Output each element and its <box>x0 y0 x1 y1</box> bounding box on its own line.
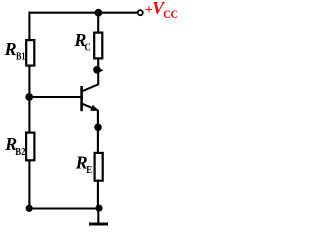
svg-text:R: R <box>4 39 17 59</box>
wire base lead horizontal <box>29 96 81 98</box>
ground <box>89 223 108 226</box>
node collector junction <box>93 66 104 74</box>
wire top rail <box>29 12 138 14</box>
wire emitter lead vertical <box>97 110 99 130</box>
svg-text:B2: B2 <box>15 146 26 158</box>
wire from emitter node to RE <box>97 127 99 153</box>
label RC <box>73 30 90 54</box>
wire right vertical from rail to RC <box>97 13 99 33</box>
resistor RC <box>94 33 102 59</box>
label RE <box>75 152 93 176</box>
svg-text:B1: B1 <box>16 50 26 62</box>
wire from RE to ground node <box>97 181 99 209</box>
node top rail junction <box>95 9 103 17</box>
transistor Q1 <box>81 84 99 111</box>
resistor RB1 <box>26 40 34 66</box>
label RB1 <box>4 39 26 63</box>
label +VCC <box>145 0 178 21</box>
wire collector lead vertical <box>97 58 99 85</box>
resistor RE <box>95 153 103 181</box>
label RB2 <box>4 134 26 158</box>
node base divider junction <box>25 93 33 101</box>
wire bottom horizontal <box>29 207 99 209</box>
terminal VCC open circle <box>138 10 143 15</box>
svg-text:CC: CC <box>163 7 178 21</box>
wire left vertical top segment <box>28 12 30 41</box>
wire ground stub <box>97 208 99 223</box>
node ground junction <box>95 205 102 212</box>
wire left vertical middle segment <box>28 66 30 133</box>
svg-text:E: E <box>86 164 92 176</box>
wire left vertical bottom segment <box>28 160 30 208</box>
node emitter junction <box>94 124 102 132</box>
svg-text:C: C <box>84 42 90 54</box>
resistor RB2 <box>26 133 34 161</box>
node bottom-left corner junction <box>26 205 33 212</box>
